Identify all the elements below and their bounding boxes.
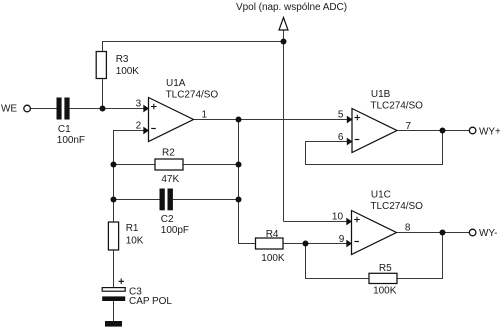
svg-text:TLC274/SO: TLC274/SO xyxy=(370,101,423,112)
ground xyxy=(105,321,122,327)
wire R5 right to U1C output xyxy=(397,233,443,279)
capacitor C3 polarized xyxy=(102,279,172,308)
svg-text:3: 3 xyxy=(136,98,142,109)
svg-text:10K: 10K xyxy=(126,236,144,247)
wire Vpol vertical xyxy=(283,30,285,222)
wire U1A output to pin5 U1B xyxy=(194,119,352,121)
node Vpol rail junction xyxy=(281,39,287,45)
node C2 right junction xyxy=(236,197,242,203)
svg-text:WY+: WY+ xyxy=(479,127,500,138)
wire WE to C1 xyxy=(31,108,57,110)
svg-text:R5: R5 xyxy=(379,263,392,274)
resistor R5 xyxy=(369,263,397,297)
node A C1/R3 junction xyxy=(100,106,106,112)
wire R2 row right xyxy=(183,164,239,166)
node C2 left junction xyxy=(111,197,117,203)
wire C2 row left xyxy=(114,199,160,201)
svg-text:2: 2 xyxy=(136,121,142,132)
svg-text:C1: C1 xyxy=(58,124,71,135)
wire top rail R3 to Vpol xyxy=(103,42,284,52)
wire U1B output to WY+ xyxy=(398,130,470,132)
wire right vertical U1A out down to R4 xyxy=(239,120,256,244)
terminal WY- xyxy=(469,228,497,239)
svg-text:WE: WE xyxy=(1,104,17,115)
svg-text:Vpol (nap. wspólne ADC): Vpol (nap. wspólne ADC) xyxy=(236,2,347,13)
node U1A output junction xyxy=(236,117,242,123)
svg-text:47K: 47K xyxy=(161,174,179,185)
svg-text:R4: R4 xyxy=(266,229,279,240)
node U1B output junction xyxy=(440,128,446,134)
node R4/pin9/R5 junction xyxy=(303,241,309,247)
svg-text:TLC274/SO: TLC274/SO xyxy=(166,90,219,101)
capacitor C1 xyxy=(57,98,86,146)
svg-text:100K: 100K xyxy=(116,66,140,77)
wire R2 row left xyxy=(114,164,156,166)
terminal WY+ xyxy=(469,127,500,138)
svg-text:U1C: U1C xyxy=(371,189,391,200)
wire C1 to pin3 U1A xyxy=(70,108,149,110)
svg-text:WY-: WY- xyxy=(479,228,497,239)
node U1C output junction xyxy=(440,230,446,236)
resistor R1 xyxy=(108,222,143,250)
svg-text:100nF: 100nF xyxy=(57,135,85,146)
node R2 left junction xyxy=(111,162,117,168)
capacitor C2 xyxy=(160,189,190,237)
wire pin6 U1B feedback xyxy=(306,131,443,165)
op-amp U1A xyxy=(136,78,219,142)
wire C3 to ground xyxy=(113,301,115,322)
node R2 right junction xyxy=(236,162,242,168)
svg-text:1: 1 xyxy=(202,109,208,120)
svg-text:100pF: 100pF xyxy=(161,225,189,236)
wire U1C output to WY- xyxy=(397,232,470,234)
svg-text:8: 8 xyxy=(405,223,411,234)
resistor R4 xyxy=(256,229,285,264)
svg-text:9: 9 xyxy=(339,234,345,245)
op-amp U1B xyxy=(338,89,423,153)
svg-text:U1A: U1A xyxy=(166,78,186,89)
svg-text:100K: 100K xyxy=(373,286,397,297)
wire R3 bottom to node A xyxy=(102,79,104,109)
wire pin2 U1A left vertical xyxy=(114,131,149,223)
power Vpol symbol xyxy=(236,2,347,30)
svg-text:TLC274/SO: TLC274/SO xyxy=(370,201,423,212)
wire R4 to pin9 U1C xyxy=(283,243,352,245)
svg-text:C2: C2 xyxy=(161,214,174,225)
resistor R2 xyxy=(155,148,183,185)
op-amp U1C xyxy=(332,189,423,254)
svg-text:5: 5 xyxy=(338,110,344,121)
svg-text:R3: R3 xyxy=(116,54,129,65)
svg-text:6: 6 xyxy=(338,132,344,143)
svg-text:R2: R2 xyxy=(162,148,175,159)
resistor R3 xyxy=(96,52,139,79)
svg-text:7: 7 xyxy=(406,121,412,132)
svg-text:R1: R1 xyxy=(126,223,139,234)
svg-text:U1B: U1B xyxy=(371,89,391,100)
wire C2 row right xyxy=(173,199,239,201)
svg-text:CAP POL: CAP POL xyxy=(129,296,172,307)
svg-text:100K: 100K xyxy=(261,253,285,264)
wire pin10 U1C xyxy=(284,221,352,223)
terminal WE xyxy=(1,104,30,115)
wire R1 to C3 xyxy=(113,250,115,288)
svg-text:10: 10 xyxy=(332,212,344,223)
wire R5 feedback U1C xyxy=(306,244,370,279)
